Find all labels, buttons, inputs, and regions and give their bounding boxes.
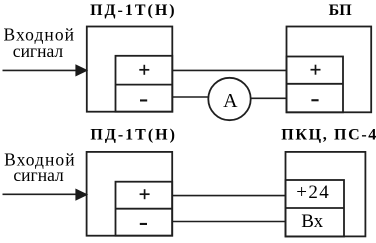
svg-text:+24: +24	[296, 182, 329, 203]
svg-text:БП: БП	[329, 2, 353, 19]
svg-text:А: А	[223, 90, 238, 112]
svg-text:сигнал: сигнал	[13, 165, 64, 185]
svg-text:Вх: Вх	[301, 211, 323, 232]
svg-text:сигнал: сигнал	[13, 41, 64, 61]
svg-text:ПКЦ, ПС-4: ПКЦ, ПС-4	[281, 127, 376, 144]
